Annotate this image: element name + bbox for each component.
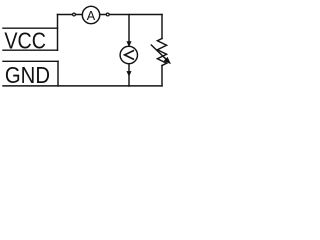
wire VCC flag to top rail [57, 15, 59, 51]
svg-text:A: A [87, 8, 96, 23]
ammeter A [82, 6, 99, 23]
voltmeter (rotated V) [120, 46, 137, 63]
current arrow on voltmeter bottom lead [127, 71, 131, 76]
wire bottom rail [129, 85, 162, 87]
wire top rail left segment [58, 14, 83, 16]
terminal dot left of ammeter [73, 13, 76, 16]
current arrow on voltmeter top lead [127, 42, 131, 47]
net label VCC [3, 28, 58, 54]
wire voltmeter branch junction from top rail [128, 15, 130, 47]
rheostat (variable resistor) [151, 39, 170, 66]
wire GND flag bottom rail [3, 85, 129, 87]
svg-text:GND: GND [5, 62, 50, 89]
wire voltmeter to bottom rail [128, 64, 130, 86]
net label GND [3, 61, 58, 88]
wire rheostat to bottom rail [161, 66, 163, 86]
wire right branch down [161, 15, 163, 39]
wire top rail right segment [100, 14, 162, 16]
terminal dot right of ammeter [106, 13, 109, 16]
